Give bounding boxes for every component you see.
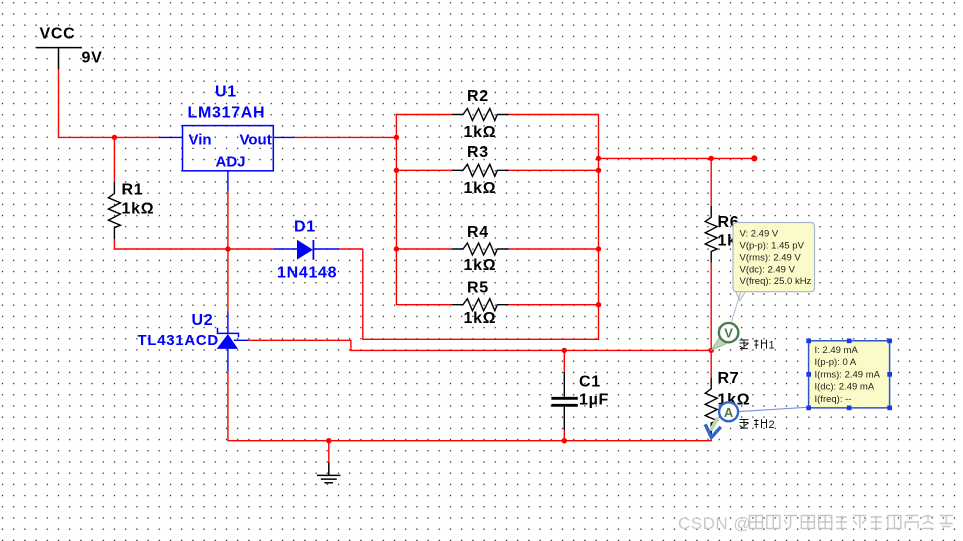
svg-text:1kΩ: 1kΩ <box>464 310 497 327</box>
svg-text:1N4148: 1N4148 <box>277 265 337 282</box>
diode D1 anode lead <box>273 248 297 250</box>
svg-text:R4: R4 <box>467 224 489 241</box>
svg-text:V(p-p): 1.45 pV: V(p-p): 1.45 pV <box>740 241 805 252</box>
svg-text:Vout: Vout <box>240 132 272 149</box>
ground <box>317 463 340 483</box>
svg-text:R2: R2 <box>467 88 489 105</box>
svg-text:V: 2.49 V: V: 2.49 V <box>740 229 779 240</box>
transistor U2 cathode bar <box>218 328 239 338</box>
wire R3 left arm <box>396 169 451 171</box>
probe A arrow pointer <box>705 418 721 438</box>
node junction R6-R7-probe <box>709 348 714 353</box>
tooltip callout V leader line <box>732 292 741 322</box>
svg-text:R1: R1 <box>122 182 144 199</box>
probe A leader line to tooltip <box>738 407 808 411</box>
node junction rightrail-R5 <box>596 302 601 307</box>
wire R7 top lead <box>710 350 712 377</box>
wire ground stub red <box>328 441 330 463</box>
resistor R2 <box>452 109 509 121</box>
wire pin Vout stub <box>273 136 294 138</box>
vcc power symbol <box>36 48 82 70</box>
wire R3 right arm <box>509 169 599 171</box>
svg-text:V(dc): 2.49 V: V(dc): 2.49 V <box>740 264 796 275</box>
wire right rail from R2 down around to D1 corner <box>363 115 599 340</box>
node junction rightrail-R6feed <box>596 156 601 161</box>
resistor R5 <box>452 299 509 311</box>
svg-text:I: 2.49 mA: I: 2.49 mA <box>815 345 859 356</box>
svg-text:U2: U2 <box>192 312 214 329</box>
node junction rail-Vout <box>394 135 399 140</box>
wire pin ADJ stub <box>227 171 229 192</box>
node junction R1 top <box>112 135 117 140</box>
svg-text:ADJ: ADJ <box>216 154 246 171</box>
wire VCC stem to Vin row <box>59 69 160 137</box>
svg-text:1kΩ: 1kΩ <box>464 180 497 197</box>
wire R4 left arm <box>396 248 451 250</box>
wire R6 lower lead <box>710 263 712 351</box>
tooltip A measurements (selected) <box>809 341 890 408</box>
probe A circle 探针2 <box>719 402 738 421</box>
probe V wedge pointer <box>711 338 726 351</box>
svg-text:R5: R5 <box>467 280 489 297</box>
svg-text:I(freq): --: I(freq): -- <box>815 394 852 405</box>
wire U2 ref jog to probe row <box>248 340 711 350</box>
resistor R6 <box>705 206 717 263</box>
op-amp U1 LM317AH box <box>183 126 274 171</box>
svg-text:R7: R7 <box>718 370 740 387</box>
diode D1 cathode lead <box>313 248 339 250</box>
transistor U2 TL431ACD cathode stub <box>227 311 229 333</box>
wire R1 bottom to D1 row <box>114 239 273 249</box>
wire D1 cathode to corner <box>339 248 363 250</box>
capacitor C1 <box>551 372 577 430</box>
wire R5 right arm <box>509 304 599 306</box>
node junction rail-R4 <box>394 246 399 251</box>
node junction C1 top <box>562 348 567 353</box>
wire left rail with R2 and R5 arms <box>396 115 451 305</box>
wire R6 feed row <box>599 157 755 159</box>
diode D1 cathode bar <box>312 240 314 260</box>
wire R4 right arm <box>509 248 599 250</box>
resistor R3 <box>452 164 509 176</box>
svg-text:VCC: VCC <box>40 26 76 43</box>
svg-text:A: A <box>724 405 734 420</box>
resistor R7 <box>705 378 717 435</box>
node wire end dot <box>751 155 757 161</box>
wire pin Vin stub <box>159 136 183 138</box>
svg-text:I(dc): 2.49 mA: I(dc): 2.49 mA <box>815 382 875 393</box>
svg-text:2: 2 <box>769 419 775 431</box>
capacitor C1 bottom lead red <box>563 430 565 441</box>
svg-text:1µF: 1µF <box>579 392 609 409</box>
node junction rightrail-R4 <box>596 246 601 251</box>
label probe2 name (CJK glyphs drawn) <box>740 419 767 428</box>
svg-text:1kΩ: 1kΩ <box>464 257 497 274</box>
node junction ground <box>326 438 331 443</box>
svg-text:V: V <box>724 326 733 341</box>
svg-text:Vin: Vin <box>189 132 212 149</box>
node junction C1 bottom <box>562 438 567 443</box>
svg-text:I(p-p): 0 A: I(p-p): 0 A <box>815 357 857 368</box>
node junction R6 top <box>709 156 714 161</box>
label probe1 name (CJK glyphs drawn) <box>740 340 767 349</box>
probe V circle 探针1 <box>719 323 738 342</box>
svg-text:R3: R3 <box>467 144 489 161</box>
wire R1 top lead <box>113 137 115 182</box>
svg-text:CSDN @: CSDN @ <box>678 514 751 533</box>
diode D1 triangle <box>297 240 313 260</box>
svg-text:V(freq): 25.0 kHz: V(freq): 25.0 kHz <box>740 276 812 287</box>
capacitor C1 top lead red <box>563 350 565 371</box>
svg-text:C1: C1 <box>579 374 601 391</box>
tooltip callout V measurements <box>733 223 815 292</box>
node junction rightrail-R3 <box>596 168 601 173</box>
resistor R1 <box>108 182 120 239</box>
svg-text:D1: D1 <box>294 219 316 236</box>
node junction rail-R3 <box>394 168 399 173</box>
svg-text:1kΩ: 1kΩ <box>122 201 155 218</box>
wire ADJ down to U2 <box>227 192 229 312</box>
wire U2 anode down and bottom rail <box>228 372 711 441</box>
svg-text:1: 1 <box>769 340 775 352</box>
tooltip callout V tail <box>736 291 747 301</box>
wire Vout to left rail <box>295 136 397 138</box>
node junction ADJ on D1 row <box>225 246 230 251</box>
wire R6 upper lead <box>710 158 712 206</box>
svg-text:U1: U1 <box>215 84 237 101</box>
watermark CSDN <box>678 514 953 533</box>
svg-text:TL431ACD: TL431ACD <box>138 332 219 349</box>
selection handles <box>806 339 892 411</box>
svg-text:9V: 9V <box>82 50 103 67</box>
resistor R4 <box>452 243 509 255</box>
svg-text:V(rms): 2.49 V: V(rms): 2.49 V <box>740 252 802 263</box>
transistor U2 ref lead <box>234 339 249 341</box>
svg-text:I(rms): 2.49 mA: I(rms): 2.49 mA <box>815 369 881 380</box>
transistor U2 triangle <box>217 334 238 349</box>
svg-text:1kΩ: 1kΩ <box>464 124 497 141</box>
transistor U2 anode stub <box>227 349 229 372</box>
svg-text:LM317AH: LM317AH <box>188 105 266 122</box>
